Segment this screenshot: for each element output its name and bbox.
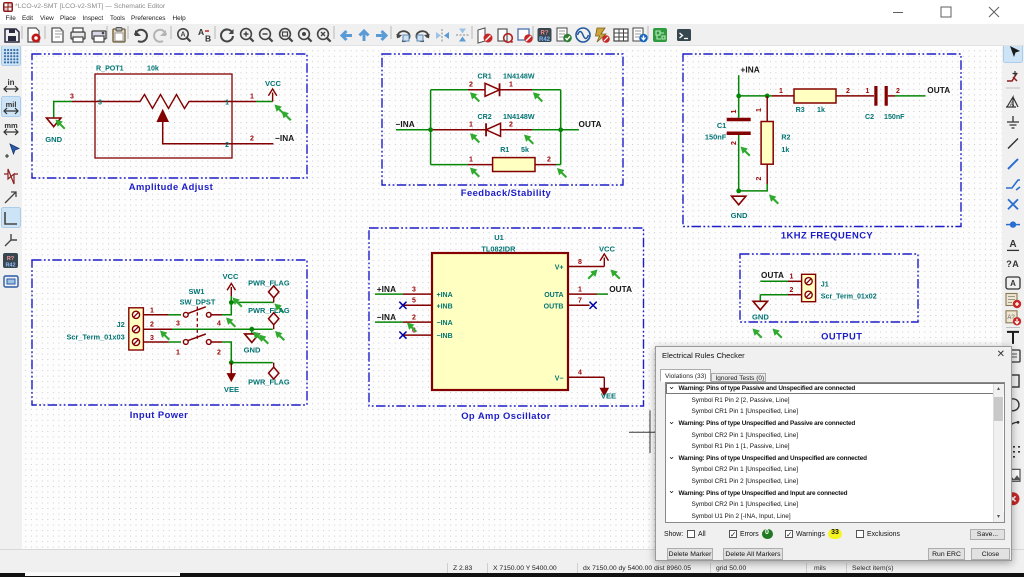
svg-text:1: 1 <box>250 94 254 101</box>
svg-text:2: 2 <box>150 322 154 329</box>
svg-text:mil: mil <box>6 100 17 109</box>
svg-text:OUTA: OUTA <box>544 292 563 299</box>
svg-text:R?: R? <box>7 256 15 262</box>
svg-text:−INA: −INA <box>437 320 453 327</box>
svg-text:PWR_FLAG: PWR_FLAG <box>248 378 290 387</box>
svg-text:10k: 10k <box>147 65 159 73</box>
svg-text:7: 7 <box>578 298 582 305</box>
svg-text:VCC: VCC <box>222 272 239 281</box>
svg-text:OUTA: OUTA <box>609 285 632 294</box>
svg-text:in: in <box>7 78 14 87</box>
svg-text:PWR_FLAG: PWR_FLAG <box>248 279 290 288</box>
svg-text:OUTA: OUTA <box>579 120 602 129</box>
svg-text:R1: R1 <box>500 146 509 154</box>
svg-text:Input Power: Input Power <box>130 409 189 420</box>
svg-text:+INA: +INA <box>741 66 760 75</box>
svg-text:OUTA: OUTA <box>761 271 784 280</box>
svg-text:1KHZ FREQUENCY: 1KHZ FREQUENCY <box>781 230 874 241</box>
svg-text:−INB: −INB <box>437 333 453 340</box>
svg-text:+INB: +INB <box>437 303 453 310</box>
svg-text:A: A <box>1009 239 1016 250</box>
svg-text:2: 2 <box>846 88 850 95</box>
svg-text:1: 1 <box>469 122 473 129</box>
svg-text:1: 1 <box>756 108 763 112</box>
svg-text:U1: U1 <box>494 233 503 242</box>
svg-text:OUTA: OUTA <box>927 86 950 95</box>
svg-text:2: 2 <box>250 136 254 143</box>
svg-text:1: 1 <box>225 100 229 107</box>
svg-text:GND: GND <box>45 135 62 144</box>
svg-text:1k: 1k <box>781 146 789 154</box>
svg-text:J2: J2 <box>116 320 124 329</box>
svg-text:1: 1 <box>731 109 738 113</box>
svg-text:SW1: SW1 <box>188 287 204 296</box>
svg-text:R3: R3 <box>796 106 805 114</box>
svg-text:PWR_FLAG: PWR_FLAG <box>248 306 290 315</box>
svg-text:GND: GND <box>244 346 261 355</box>
svg-text:C2: C2 <box>865 113 874 121</box>
svg-text:+INA: +INA <box>437 292 453 299</box>
svg-text:1: 1 <box>150 308 154 315</box>
svg-text:5k: 5k <box>521 146 529 154</box>
svg-text:1: 1 <box>790 274 794 281</box>
svg-text:3: 3 <box>70 94 74 101</box>
svg-text:GND: GND <box>731 211 748 220</box>
svg-text:1: 1 <box>469 157 473 164</box>
svg-text:2: 2 <box>731 141 738 145</box>
svg-text:OUTPUT: OUTPUT <box>821 331 862 342</box>
svg-text:GND: GND <box>752 313 769 322</box>
svg-text:CR1: CR1 <box>478 72 492 80</box>
svg-text:2: 2 <box>509 122 513 129</box>
svg-text:3: 3 <box>412 287 416 294</box>
svg-text:1: 1 <box>866 88 870 95</box>
svg-text:1: 1 <box>779 88 783 95</box>
svg-text:J1: J1 <box>821 281 829 289</box>
svg-text:R42: R42 <box>5 263 15 269</box>
svg-text:V−: V− <box>555 375 564 382</box>
svg-text:C1: C1 <box>717 121 726 130</box>
svg-text:VCC: VCC <box>599 245 616 254</box>
svg-text:−INA: −INA <box>396 120 415 129</box>
svg-text:1: 1 <box>176 350 180 357</box>
svg-text:2: 2 <box>547 157 551 164</box>
svg-text:3: 3 <box>176 321 180 328</box>
svg-text:A: A <box>1012 259 1019 269</box>
svg-text:mm: mm <box>4 121 18 130</box>
svg-text:VEE: VEE <box>224 385 239 394</box>
svg-text:3: 3 <box>98 100 102 107</box>
svg-text:Amplitude Adjust: Amplitude Adjust <box>129 181 213 192</box>
svg-text:2: 2 <box>469 82 473 89</box>
svg-text:Feedback/Stability: Feedback/Stability <box>461 187 552 198</box>
svg-text:TL082IDR: TL082IDR <box>481 245 516 254</box>
svg-text:2: 2 <box>412 315 416 322</box>
svg-text:1: 1 <box>578 287 582 294</box>
svg-text:Op Amp Oscillator: Op Amp Oscillator <box>461 410 551 421</box>
svg-text:5: 5 <box>412 298 416 305</box>
svg-text:2: 2 <box>217 350 221 357</box>
svg-text:CR2: CR2 <box>478 113 492 121</box>
svg-text:3: 3 <box>150 335 154 342</box>
svg-text:−INA: −INA <box>377 313 396 322</box>
svg-text:1N4148W: 1N4148W <box>503 72 535 80</box>
svg-text:Scr_Term_01x03: Scr_Term_01x03 <box>66 333 124 342</box>
svg-text:2: 2 <box>896 88 900 95</box>
svg-text:SW_DPST: SW_DPST <box>180 298 216 307</box>
svg-text:V+: V+ <box>555 265 564 272</box>
svg-text:OUTB: OUTB <box>544 303 564 310</box>
svg-text:Scr_Term_01x02: Scr_Term_01x02 <box>821 293 877 301</box>
svg-text:150nF: 150nF <box>884 113 905 121</box>
svg-text:150nF: 150nF <box>705 133 727 142</box>
svg-text:+INA: +INA <box>377 285 396 294</box>
svg-text:A: A <box>1010 101 1015 108</box>
svg-text:2: 2 <box>225 142 229 149</box>
svg-text:R2: R2 <box>781 134 790 142</box>
svg-text:R_POT1: R_POT1 <box>96 65 124 73</box>
svg-text:1: 1 <box>509 82 513 89</box>
svg-text:−INA: −INA <box>275 134 294 143</box>
svg-text:1N4148W: 1N4148W <box>503 113 535 121</box>
svg-text:4: 4 <box>578 370 582 377</box>
svg-text:2: 2 <box>756 176 763 180</box>
svg-text:8: 8 <box>578 259 582 266</box>
svg-text:?: ? <box>1006 259 1012 269</box>
svg-text:VEE: VEE <box>601 392 616 401</box>
svg-text:2: 2 <box>790 287 794 294</box>
svg-text:4: 4 <box>217 321 221 328</box>
svg-text:1k: 1k <box>817 106 825 114</box>
svg-text:VCC: VCC <box>265 79 282 88</box>
svg-text:A: A <box>1010 279 1016 288</box>
